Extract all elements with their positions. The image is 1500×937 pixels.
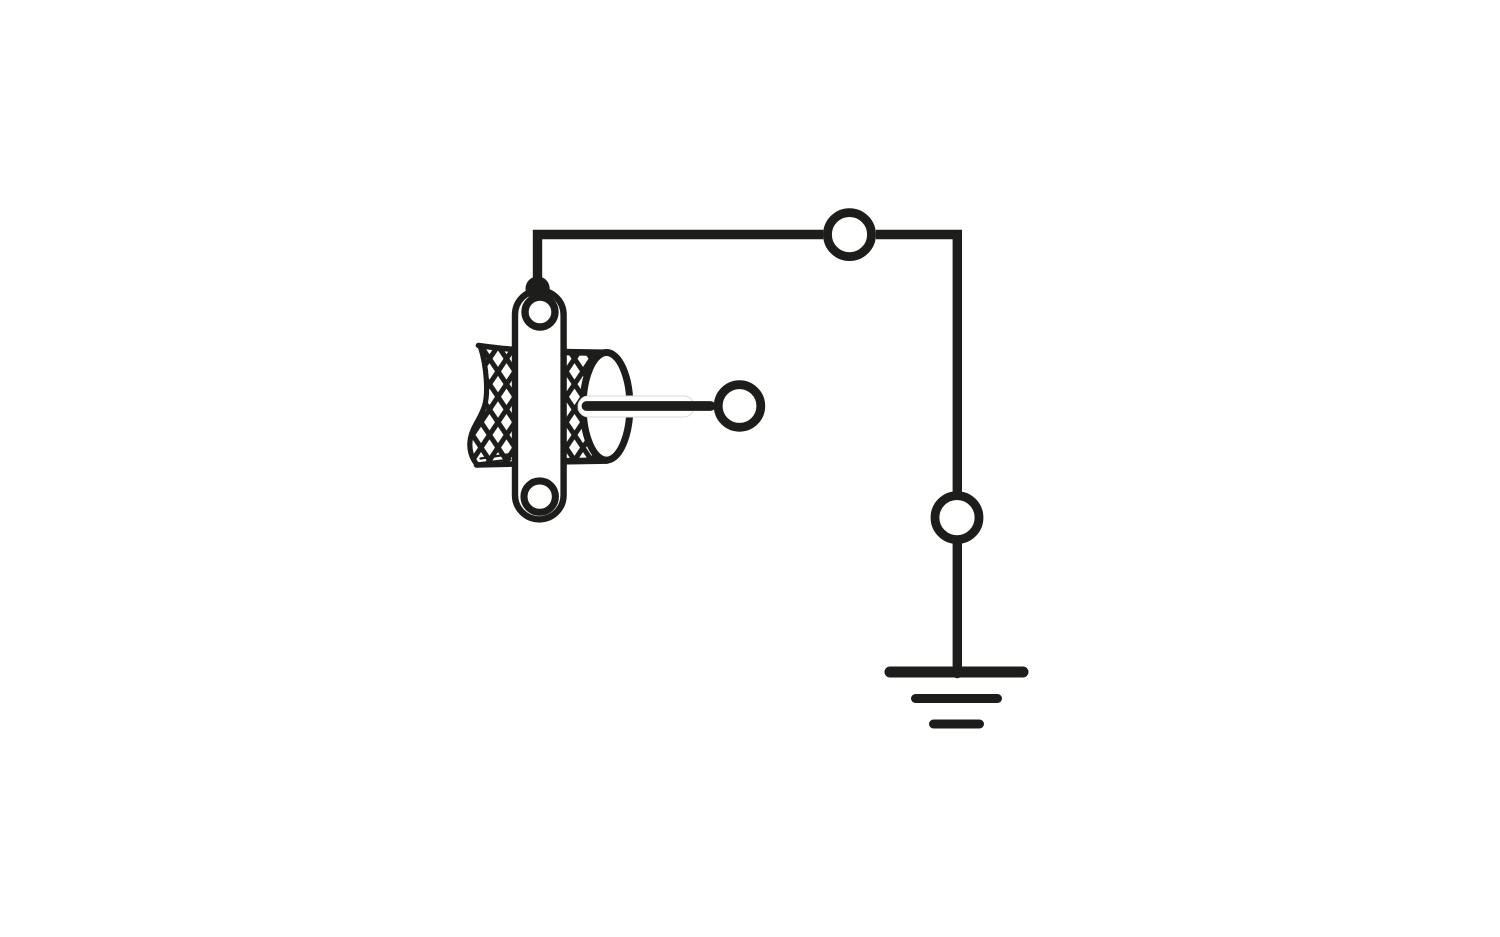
junction node dot at clamp top — [526, 277, 550, 301]
braid loose strand 1 — [481, 454, 512, 459]
terminal circle on top wire — [828, 213, 872, 257]
white clearance pill around centre conductor — [578, 396, 694, 417]
cable shield braid left patch (mesh fill) — [470, 348, 516, 465]
wire: shield tap up and across to junction circle — [538, 235, 824, 290]
centre conductor — [587, 401, 711, 411]
terminal circle on right vertical wire — [935, 496, 979, 540]
cylinder bottom edge — [562, 457, 607, 464]
braid left patch bottom edge — [477, 464, 517, 465]
centre conductor terminal circle — [718, 385, 761, 428]
cylinder top edge — [562, 349, 607, 356]
shield clamp body (stadium) — [515, 290, 564, 519]
ground bar 1 (top, longest) — [890, 667, 1023, 678]
braid left patch top edge — [479, 346, 517, 350]
ground bar 3 (bottom, shortest) — [934, 720, 980, 729]
wire: down to ground — [953, 544, 962, 674]
cable shield braid right patch (cylinder body mesh) — [562, 352, 612, 461]
braid left patch wavy cut edge — [470, 347, 487, 465]
braid loose strand 2 — [480, 460, 511, 464]
cylinder end-cap ellipse — [583, 353, 630, 461]
clamp bottom eyelet circle — [524, 481, 555, 512]
wire: from terminal across and down right side — [876, 235, 957, 492]
clamp top eyelet circle — [525, 297, 555, 327]
ground bar 2 (middle) — [916, 694, 998, 703]
